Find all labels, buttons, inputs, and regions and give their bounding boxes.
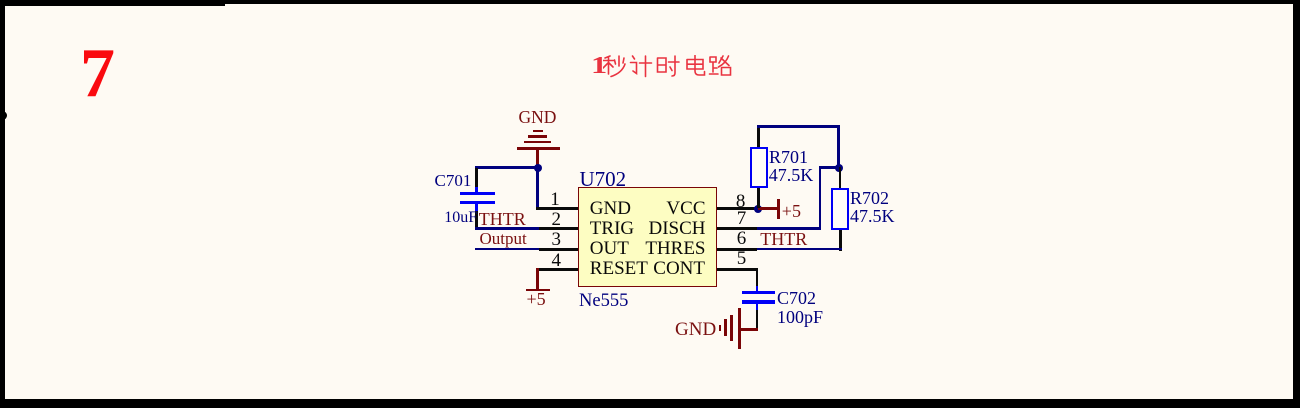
IC pin name VCC	[666, 199, 705, 218]
ground symbol (bottom) bars	[738, 308, 741, 350]
wire: top horizontal (R701 top to R702 top)	[757, 125, 840, 128]
pin 1 number	[550, 190, 560, 209]
net label THTR (pin2)	[479, 210, 526, 228]
pin 3 number	[552, 230, 562, 249]
capacitor C702 plates	[742, 291, 775, 294]
GND label (bottom)	[675, 320, 716, 339]
node B junction dot (pin8/+5/R701)	[754, 205, 762, 213]
page border right	[1293, 0, 1300, 408]
IC pin name DISCH	[648, 219, 705, 238]
pin 7 stub	[717, 227, 757, 230]
pin 6 stub	[717, 248, 757, 251]
R701 designator	[769, 148, 808, 166]
pin 4 number	[552, 251, 562, 270]
capacitor C701 bottom pin	[475, 204, 478, 212]
power +5 (bottom) stem	[536, 268, 539, 289]
IC pin name THRES	[645, 239, 705, 258]
pin 8 number	[736, 192, 746, 211]
R702 value 47.5K	[850, 207, 895, 225]
C701 designator	[435, 172, 472, 189]
C702 value 100pF	[777, 308, 823, 326]
title: 1秒计时电路	[591, 54, 607, 78]
capacitor C701 top pin	[475, 168, 478, 188]
pin 4 stub	[536, 268, 578, 271]
IC pin name RESET	[590, 259, 648, 278]
net label THTR (pin6)	[760, 230, 807, 248]
wire: pin2 net	[475, 227, 540, 230]
power +5 (bottom) bar	[526, 289, 550, 292]
IC pin name CONT	[653, 259, 705, 278]
pin 2 stub	[539, 227, 578, 230]
IC pin name TRIG	[590, 219, 634, 238]
page border bottom	[0, 399, 1300, 408]
wire: pin3 net	[475, 248, 540, 251]
op... IC body U702	[578, 187, 718, 287]
wire: right vertical down to node C	[837, 125, 840, 167]
ground symbol (bottom, rotated) stem	[740, 328, 759, 331]
U702 designator	[580, 169, 627, 190]
node C junction dot	[835, 164, 843, 172]
R701 bottom pin	[757, 188, 760, 208]
page border left	[0, 0, 5, 408]
net label Output (pin3)	[480, 230, 527, 247]
capacitor C702 bottom pin	[756, 304, 759, 312]
capacitor C701 plates	[460, 192, 495, 195]
C701 value 10uF	[444, 210, 477, 226]
IC pin name OUT	[590, 239, 629, 258]
pin 5 number	[737, 249, 747, 268]
pin 8 stub	[717, 207, 759, 210]
resistor R702 body	[831, 188, 849, 230]
capacitor C702 top stub	[756, 286, 759, 291]
wire: junction left to C701 top	[475, 166, 538, 169]
char 电	[687, 56, 705, 76]
R701 top pin	[757, 126, 760, 147]
C702 designator	[777, 289, 816, 307]
pin 1 stub	[536, 207, 578, 210]
pin 6 number	[737, 229, 747, 248]
R701 value 47.5K	[769, 166, 814, 184]
char 计	[631, 56, 652, 77]
power +5 (right) lead	[758, 207, 778, 210]
char 时	[658, 56, 680, 76]
pin 5 stub	[717, 268, 758, 271]
IC pin name GND	[590, 199, 631, 218]
wire: pin5 down leg	[756, 268, 759, 287]
page number 7	[80, 42, 115, 105]
char 路	[710, 56, 731, 75]
wire: pin6 net horizontal	[757, 248, 842, 251]
GND label (top)	[519, 109, 557, 127]
R702 designator	[850, 189, 889, 207]
pin 7 number	[737, 209, 747, 228]
power +5 (right) label	[782, 202, 801, 220]
resistor R701 body	[750, 147, 768, 188]
wire: pin7 net horizontal	[757, 227, 821, 230]
power +5 (right) bar	[777, 199, 780, 220]
pin 2 number	[552, 210, 562, 229]
page border left bump	[0, 111, 7, 120]
R702 bottom pin	[839, 230, 842, 251]
R702 top pin	[839, 167, 842, 188]
char 秒	[603, 56, 625, 77]
pin 3 stub	[539, 248, 578, 251]
page border top	[0, 0, 1300, 4]
power +5 (bottom) label	[527, 290, 546, 308]
node A junction dot	[534, 164, 542, 172]
wire: node C left then down to pin7	[819, 166, 839, 169]
wire: junction down to pin1 corner	[536, 166, 539, 209]
Ne555 value	[579, 292, 628, 311]
ground symbol (top, maroon)	[533, 130, 543, 133]
